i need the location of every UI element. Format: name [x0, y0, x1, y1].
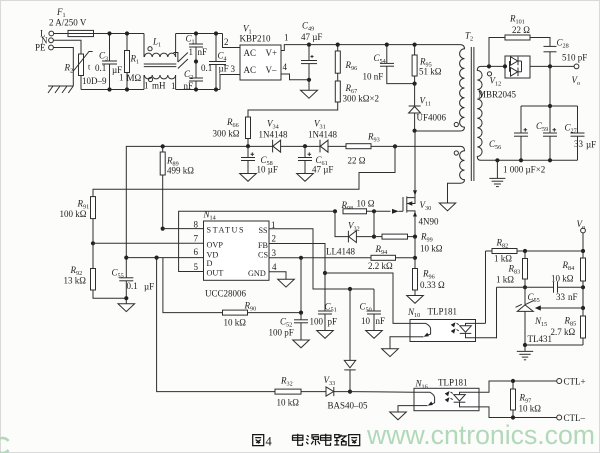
node dot R97 bottom — [511, 415, 515, 419]
svg-text:www.cntronics.com: www.cntronics.com — [366, 420, 595, 450]
diode V34 1N4148 — [259, 119, 288, 153]
secondary phase dot — [487, 72, 491, 76]
wire VD branch down to R32 line — [157, 258, 275, 392]
capacitor C4 0.1uF — [201, 34, 229, 90]
node C1-C2 midpoint — [194, 59, 198, 63]
svg-text:10 nF: 10 nF — [363, 72, 384, 82]
svg-text:UF4006: UF4006 — [417, 113, 447, 123]
IC N14 UCC28006 — [203, 210, 270, 299]
core — [470, 47, 472, 181]
svg-text:TL431: TL431 — [528, 334, 553, 344]
bridge rectifier V1 KBP210 — [240, 24, 282, 81]
svg-text:499 kΩ: 499 kΩ — [167, 166, 194, 176]
resistor R1 1M — [119, 34, 142, 90]
resistor R96 0.33R sense — [413, 269, 446, 296]
node dot bottom rail ground — [495, 158, 499, 162]
svg-text:1N4148: 1N4148 — [308, 130, 337, 140]
svg-text:AC: AC — [244, 48, 257, 58]
svg-text:STATUS: STATUS — [207, 226, 244, 235]
svg-text:300 kΩ: 300 kΩ — [213, 129, 240, 139]
terminal CTL+ — [557, 379, 562, 384]
wire secondary bottom rail — [481, 159, 578, 161]
node dot ref node — [581, 306, 585, 310]
node dot N rail at C2 — [194, 87, 198, 91]
node dot DC rail at C49 — [307, 43, 311, 47]
svg-text:51 kΩ: 51 kΩ — [419, 67, 442, 77]
capacitor C55 0.1uF — [112, 258, 155, 304]
svg-text:TLP181: TLP181 — [428, 307, 458, 317]
MOSFET V30 4N90 — [399, 131, 439, 237]
svg-text:1 kΩ: 1 kΩ — [496, 275, 514, 285]
wire bottom rail (N side) — [81, 89, 144, 91]
node dot OVP divider — [91, 241, 95, 245]
resistor R99 10k — [374, 232, 443, 254]
node dot C49 bottom — [307, 78, 311, 82]
svg-text:10 kΩ: 10 kΩ — [224, 318, 247, 328]
svg-text:V+: V+ — [266, 48, 278, 58]
svg-text:2: 2 — [224, 37, 229, 47]
node dot TL431 anode — [523, 343, 527, 347]
diode V32 LL4148 — [326, 211, 374, 256]
svg-text:pF: pF — [328, 317, 338, 327]
svg-text:GND: GND — [248, 269, 266, 278]
svg-text:10 kΩ: 10 kΩ — [551, 274, 574, 284]
earth ground TL431 — [517, 345, 533, 360]
capacitor C49 47uF — [301, 21, 322, 91]
node dot L rail at R1 — [125, 31, 129, 35]
svg-text:4: 4 — [283, 62, 288, 72]
svg-text:100 kΩ: 100 kΩ — [60, 209, 87, 219]
diode SS pulldown — [344, 289, 355, 392]
resistor R32 10k — [275, 376, 326, 408]
terminal L — [40, 29, 54, 39]
node dot DC rail at R96 — [336, 43, 340, 47]
ground below R96 sense — [407, 296, 424, 304]
svg-text:2: 2 — [272, 234, 277, 244]
shield marks at C1/C2 midpoint — [174, 53, 188, 69]
ground below C51 — [317, 331, 334, 339]
resistor R67 300kx2 — [248, 73, 379, 117]
node dot L rail at C1 — [194, 31, 198, 35]
node dot R92/C55 ground junction — [124, 296, 128, 300]
svg-text:4: 4 — [266, 435, 273, 449]
wire LED anode riser — [485, 251, 487, 323]
wire N16 LED anode to CTL+ — [479, 381, 557, 392]
wire CS pin — [269, 257, 371, 259]
capacitor C28 510pF — [544, 38, 588, 67]
capacitor C55 33nF — [528, 282, 578, 304]
terminal PE — [35, 43, 53, 53]
ground N16 emitter — [390, 412, 407, 420]
capacitor C59 1000uF — [536, 121, 557, 160]
resistor R92 13k — [64, 243, 127, 298]
svg-text:FB: FB — [258, 241, 269, 250]
wire MBR output to Vo — [530, 65, 574, 67]
node dot N rail at R1 — [125, 87, 129, 91]
svg-text:300 kΩ×2: 300 kΩ×2 — [343, 94, 380, 104]
svg-text:10: 10 — [361, 316, 371, 326]
ground below C61 — [297, 174, 314, 182]
aux winding — [460, 146, 465, 183]
wire secondary top to MBR — [481, 65, 505, 67]
wire OUT pin riser — [179, 211, 335, 271]
capacitor C27 33uF — [565, 106, 597, 160]
svg-text:47 µF: 47 µF — [312, 165, 333, 175]
svg-text:10D–9: 10D–9 — [82, 76, 107, 86]
node dot source/R99 — [413, 235, 417, 239]
node dot bottom rail C59 — [548, 158, 552, 162]
node dot N rail at C3 — [107, 87, 111, 91]
svg-text:7: 7 — [194, 234, 199, 244]
svg-text:OVP: OVP — [207, 241, 224, 250]
node dot Vo/R84 — [581, 249, 585, 253]
svg-text:510 pF: 510 pF — [562, 53, 587, 63]
svg-text:MΩ: MΩ — [127, 73, 142, 83]
capacitor C61 47uF — [298, 146, 333, 174]
ground below C58 — [240, 174, 257, 182]
secondary winding — [477, 66, 482, 160]
resistor R94 2.2k — [368, 244, 415, 271]
wire PE to earth — [53, 48, 73, 87]
TL431 ref arrow — [540, 307, 583, 309]
wire N input — [53, 40, 81, 54]
wire N rail after choke — [176, 89, 220, 91]
svg-text:2.7 kΩ: 2.7 kΩ — [551, 327, 576, 337]
svg-text:22 Ω: 22 Ω — [348, 156, 366, 166]
svg-text:nF: nF — [568, 292, 578, 302]
svg-text:µF: µF — [219, 64, 229, 74]
svg-text:100: 100 — [310, 317, 324, 327]
svg-text:µF: µF — [586, 140, 596, 150]
node dot drain/primary junction — [413, 129, 417, 133]
transformer T2 — [415, 31, 492, 184]
svg-text:PE: PE — [35, 43, 46, 53]
svg-text:UCC28006: UCC28006 — [205, 289, 247, 299]
wire SS pin — [269, 229, 374, 289]
node dot DC rail at C54 — [385, 43, 389, 47]
svg-text:10 kΩ: 10 kΩ — [420, 244, 443, 254]
wire N10 emitter to ground — [390, 337, 410, 349]
wire L rail after choke — [176, 33, 223, 35]
wire cathode line — [497, 286, 554, 288]
node dot source/R94 — [413, 256, 417, 260]
capacitor C56 1000uF — [489, 106, 528, 160]
wire FB branch to opto N10 — [325, 273, 410, 323]
wire aux bottom to ground — [448, 183, 461, 203]
resistor R95 51k — [412, 45, 442, 84]
wire N16 emitter to ground — [398, 406, 414, 412]
node dot R89 to STATUS pin — [161, 227, 165, 231]
node dot aux line at R66/C58 — [246, 144, 250, 148]
svg-text:4: 4 — [272, 262, 277, 272]
resistor R89 499k — [160, 146, 194, 228]
terminal N — [41, 36, 53, 46]
svg-text:1: 1 — [171, 81, 176, 91]
wire aux top to node — [395, 145, 461, 147]
svg-text:22 Ω: 22 Ω — [512, 25, 530, 35]
svg-text:OUT: OUT — [207, 269, 224, 278]
svg-text:0.1: 0.1 — [201, 63, 212, 73]
ground below C50 — [366, 331, 383, 339]
earth ground (PE) — [48, 86, 73, 93]
resistor R101 22R — [489, 14, 550, 67]
diode V11 UF4006 — [409, 84, 447, 131]
ground N10 emitter — [382, 349, 399, 357]
svg-text:V–: V– — [266, 65, 277, 75]
svg-text:D: D — [207, 259, 213, 268]
dual diode V12 MBR2045 — [478, 56, 530, 100]
wire DC rail — [309, 44, 460, 46]
svg-text:TLP181: TLP181 — [438, 378, 468, 388]
thermistor R2 10D-9 — [64, 52, 107, 90]
wire VDD aux line — [126, 146, 395, 257]
node dot N rail at C4 — [214, 87, 218, 91]
wire source down — [414, 237, 416, 269]
gate arrow — [392, 209, 399, 214]
svg-text:1 000 µF×2: 1 000 µF×2 — [503, 165, 545, 175]
resistor R84 10k — [551, 251, 586, 308]
svg-text:1: 1 — [284, 33, 289, 43]
svg-text:nF: nF — [184, 81, 194, 91]
resistor R91 100k — [60, 197, 96, 244]
diode V31 1N4148 — [308, 119, 337, 153]
optocoupler N16 TLP181 — [414, 378, 479, 411]
node dot R84/Cff — [581, 285, 585, 289]
diode V33 BAS40-05 — [324, 375, 369, 411]
svg-text:5: 5 — [194, 262, 199, 272]
svg-text:0.33 Ω: 0.33 Ω — [420, 280, 445, 290]
resistor R82 1k — [486, 238, 584, 264]
resistor R93 22R — [346, 132, 380, 166]
capacitor C2 1nF — [171, 69, 203, 91]
svg-text:0.1: 0.1 — [95, 63, 106, 73]
svg-text:2 A/250 V: 2 A/250 V — [49, 18, 87, 28]
svg-text:6: 6 — [194, 247, 199, 257]
svg-text:3: 3 — [231, 64, 236, 74]
node dot VD line at C55 — [124, 256, 128, 260]
svg-text:10 µF: 10 µF — [257, 165, 278, 175]
capacitor C52 100pF — [269, 313, 309, 340]
aux phase dot — [454, 151, 458, 155]
wire output down to cap bank — [549, 66, 551, 133]
resistor R83 1k — [496, 251, 528, 287]
node dot V32/R99 — [372, 235, 376, 239]
svg-text:8: 8 — [194, 220, 199, 230]
terminal CTL- — [557, 415, 562, 420]
capacitor C51 100pF — [310, 273, 338, 331]
svg-text:1: 1 — [119, 73, 124, 83]
svg-text:nF: nF — [198, 47, 208, 57]
svg-text:10 kΩ: 10 kΩ — [277, 398, 300, 408]
svg-text:4N90: 4N90 — [419, 217, 439, 227]
svg-text:AC: AC — [244, 65, 257, 75]
wire anode to R85 — [525, 344, 583, 346]
svg-text:MBR2045: MBR2045 — [478, 90, 517, 100]
wire to bridge pin 3 — [220, 75, 240, 90]
resistor R90 10k — [223, 301, 302, 328]
node dot output — [548, 64, 552, 68]
wire L input to fuse and rail — [54, 33, 144, 35]
wire CS to R90/C52 — [300, 258, 302, 313]
capacitor C50 10nF — [360, 289, 386, 331]
svg-text:33: 33 — [556, 292, 566, 302]
svg-text:10 Ω: 10 Ω — [357, 198, 375, 208]
svg-text:3: 3 — [272, 248, 277, 258]
svg-text:1: 1 — [144, 81, 149, 91]
node dot CS junction — [299, 256, 303, 260]
svg-text:mH: mH — [152, 81, 166, 91]
wire FB pin — [269, 244, 325, 274]
node dot R97 top — [511, 379, 515, 383]
node dot L rail at C3 — [107, 31, 111, 35]
node dot aux line at R89 — [161, 144, 165, 148]
ground IC GND — [278, 279, 295, 287]
node dot L rail at C4 — [214, 31, 218, 35]
node dot BAS40/SS-diode — [348, 390, 352, 394]
svg-text:CS: CS — [258, 251, 268, 260]
svg-text:BAS40–05: BAS40–05 — [328, 401, 369, 411]
terminal Vo top — [574, 64, 579, 69]
wire N16 LED cathode to CTL- — [479, 407, 557, 418]
ground aux winding — [439, 203, 455, 211]
node dot R90/C52/CS — [299, 311, 303, 315]
node dot aux/winding node — [393, 144, 397, 148]
wire GND pin — [269, 272, 286, 280]
watermark corner fragment — [0, 438, 9, 453]
resistor R98 10R — [341, 198, 391, 214]
ground below C55 — [118, 304, 135, 312]
wire VD line — [126, 257, 203, 259]
resistor R66 300k — [213, 117, 251, 146]
shunt regulator N15 TL431 — [516, 287, 552, 345]
svg-text:nF: nF — [376, 316, 386, 326]
optocoupler N10 TLP181 — [407, 307, 497, 342]
resistor R96 (upper of 300k pair) — [335, 45, 357, 74]
node dot secondary/R101 — [487, 64, 491, 68]
svg-text:LL4148: LL4148 — [326, 247, 355, 257]
node dot bottom rail C56 — [519, 158, 523, 162]
node dot gate node — [372, 209, 376, 213]
svg-text:10 kΩ: 10 kΩ — [519, 404, 542, 414]
svg-text:47 µF: 47 µF — [301, 32, 322, 42]
capacitor C1 1nF — [186, 34, 208, 79]
earth ground secondary — [489, 160, 505, 186]
svg-text:µF: µF — [144, 282, 154, 292]
svg-text:CTL+: CTL+ — [564, 377, 586, 387]
terminal Vo feedback — [581, 228, 586, 233]
wire bridge pin1 to DC rail — [281, 45, 309, 51]
node dot DC rail at R95 — [413, 43, 417, 47]
node dot cap bank top — [548, 104, 552, 108]
svg-text:13 kΩ: 13 kΩ — [64, 276, 87, 286]
capacitor C54 10nF — [363, 45, 415, 84]
svg-text:33: 33 — [574, 139, 584, 149]
primary winding — [460, 45, 465, 131]
svg-text:1N4148: 1N4148 — [259, 130, 288, 140]
capacitor C3 0.1uF — [95, 34, 122, 90]
wire to N16 collector — [350, 391, 414, 394]
node dot TL431 cathode — [523, 285, 527, 289]
node dot SS branch — [348, 287, 352, 291]
capacitor C58 10uF — [241, 146, 278, 174]
wire OVP line to chip — [93, 242, 204, 244]
common-mode choke L1 1mH — [144, 34, 177, 91]
fuse F1 — [49, 7, 94, 37]
primary phase dot — [454, 122, 458, 126]
node dot R95/C54 junction — [413, 82, 417, 86]
resistor R85 2.7k — [551, 308, 586, 345]
svg-text:1: 1 — [189, 47, 194, 57]
wire cap bank top rail — [521, 105, 578, 107]
caption figure 4 — [253, 435, 264, 446]
wire LED cathode riser — [496, 287, 499, 338]
wire to bridge pin 2 — [223, 34, 241, 48]
resistor R97 10k — [511, 381, 542, 418]
wire VD branch to R90 — [163, 258, 223, 313]
node dot R82/R83 — [523, 249, 527, 253]
ground below C49 — [301, 90, 318, 98]
svg-text:SS: SS — [259, 226, 269, 235]
node dot FB branch — [323, 271, 327, 275]
svg-text:100 pF: 100 pF — [269, 328, 294, 338]
wire bridge pin4 down — [281, 74, 309, 80]
svg-text:KBP210: KBP210 — [240, 34, 272, 44]
svg-text:1 kΩ: 1 kΩ — [494, 254, 512, 264]
wire staircase aux node to R91 — [93, 146, 395, 196]
node dot VD branch — [155, 256, 159, 260]
ground below C52 — [293, 340, 310, 348]
svg-text:0.1: 0.1 — [127, 281, 138, 291]
node dot gate rail at R98 — [333, 209, 337, 213]
node dot aux line at C61 — [303, 144, 307, 148]
svg-text:2.2 kΩ: 2.2 kΩ — [368, 261, 393, 271]
